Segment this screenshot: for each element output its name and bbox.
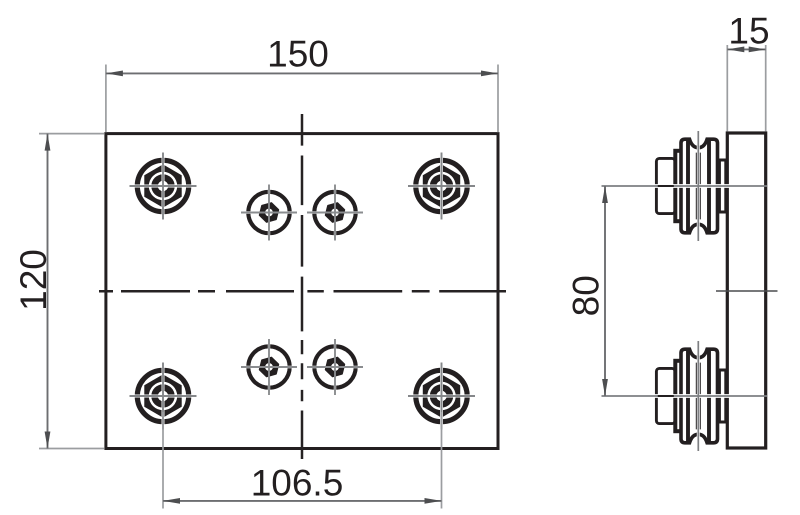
svg-text:80: 80 [566,275,607,316]
svg-text:15: 15 [728,10,769,51]
svg-text:150: 150 [267,34,329,75]
svg-text:120: 120 [13,249,54,311]
svg-text:106.5: 106.5 [251,463,344,504]
